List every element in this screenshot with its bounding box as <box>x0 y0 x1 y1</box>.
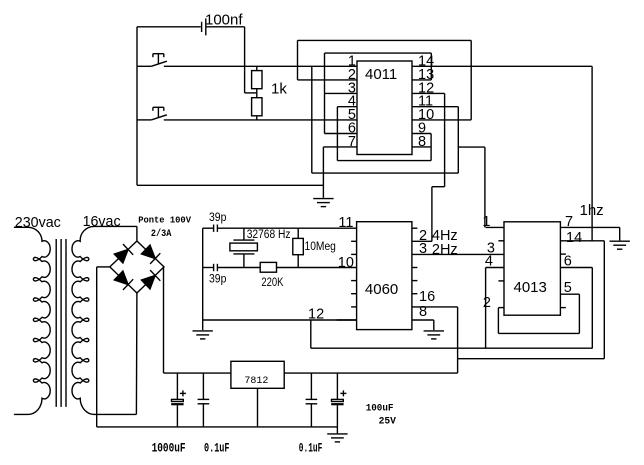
wire 4060 pin8 to ground <box>433 320 435 330</box>
wire rail to C-39p upper <box>203 227 214 229</box>
svg-text:14: 14 <box>566 230 582 246</box>
wire switch S1 to 4011 pin1 <box>164 65 357 67</box>
wire 4011 pin7 to ground <box>322 147 324 198</box>
resistor R1b 1k <box>252 98 262 116</box>
capacitor 39p upper plates <box>213 225 215 232</box>
pin nub left 4060 row5 <box>351 293 357 295</box>
wire vert to 4013 pin1 <box>484 147 486 227</box>
wire bridge minus down to ground rail <box>96 267 98 427</box>
diode D2 bridge top-right <box>141 245 160 264</box>
wire 4011 pin3 stub <box>325 92 358 94</box>
wire 4060 pin2 stub 4Hz <box>412 240 432 242</box>
svg-text:16: 16 <box>419 289 435 305</box>
svg-text:100nf: 100nf <box>205 12 243 29</box>
capacitor 39p lower plates <box>213 264 215 271</box>
svg-text:1000uF: 1000uF <box>152 442 186 456</box>
wire vert to pin2 <box>297 40 299 80</box>
wire 4011 pin9 stub <box>412 133 431 135</box>
svg-text:25V: 25V <box>379 417 396 428</box>
svg-text:4013: 4013 <box>514 279 547 296</box>
wire bottom ground rail <box>97 426 338 428</box>
wire top to capacitor C-100nf <box>137 26 201 28</box>
svg-text:0.1uF: 0.1uF <box>204 442 230 456</box>
wire vert to 4060 pin2 4Hz <box>431 187 433 242</box>
switch S2 pushbutton <box>137 119 151 121</box>
wire mid node to R1b <box>256 93 258 98</box>
wire 7812 input rail <box>164 372 231 374</box>
wire VDD vert pin16 to rail <box>457 307 459 373</box>
bridge rectifier diamond <box>110 241 164 293</box>
wire top loop pin2-pin10 <box>298 39 472 41</box>
wire crystal bottom stem <box>243 254 245 268</box>
wire bridge minus corner <box>97 266 110 268</box>
diode D4 bridge bottom-right <box>141 270 160 289</box>
pin nub right 4060 row5 <box>412 293 418 295</box>
svg-text:7: 7 <box>565 214 573 230</box>
svg-text:11: 11 <box>338 215 353 231</box>
wire 4011 pin14 VDD to right <box>412 65 592 67</box>
ground below crystal rail <box>193 331 213 339</box>
svg-text:4: 4 <box>485 254 493 270</box>
wire 4060 pin12 stub <box>337 319 357 321</box>
capacitor C 100uF electrolytic <box>336 373 338 399</box>
wire 4060 pin12 to rail <box>203 319 357 321</box>
pin nub left 4013 row4 <box>498 280 504 282</box>
wire 4011 pin2 stub <box>298 79 358 81</box>
diode D1 bridge top-left <box>114 244 133 263</box>
wire 4011 pin8 stub <box>412 146 431 148</box>
diode D3 bridge bottom-left <box>114 271 133 290</box>
wire 4060 pin16 stub <box>412 306 458 308</box>
wire rail to C-39p lower <box>203 267 214 269</box>
svg-text:5: 5 <box>564 280 572 296</box>
wire vert from pin1 row <box>311 66 313 173</box>
svg-text:8: 8 <box>419 304 427 320</box>
pin nub right 4060 row4 <box>412 280 418 282</box>
transformer T1 secondary winding <box>72 226 137 414</box>
wire 4013 pin2 to pin5 <box>498 332 579 334</box>
ground right of 4013 <box>610 241 630 249</box>
pin nub right 4013 row6 <box>560 307 566 309</box>
svg-text:10Meg: 10Meg <box>305 239 336 253</box>
wire vert from pin12 <box>444 93 446 186</box>
transformer T1 primary winding <box>14 227 50 414</box>
svg-text:4060: 4060 <box>365 281 398 298</box>
pin nub right 4013 row2 <box>560 253 566 255</box>
svg-text:1: 1 <box>482 214 490 230</box>
op-amp U3 4013 body <box>504 222 560 315</box>
svg-text:220K: 220K <box>261 277 283 289</box>
wire 4011 pin11 stub <box>412 106 458 108</box>
wire vert to pin10 <box>470 40 472 120</box>
wire pin1 row to pin11 vert <box>312 172 459 174</box>
ground below 4060 pin8 <box>424 331 444 339</box>
svg-text:4011: 4011 <box>365 66 397 83</box>
wire 4013 pin4 to reset bus <box>485 268 487 349</box>
svg-text:39p: 39p <box>209 274 226 286</box>
crystal X1 32768Hz <box>233 239 254 241</box>
wire 4013 pin2 stub <box>498 307 504 309</box>
wire switch S2 to 4011 pin5 <box>164 119 357 121</box>
svg-text:10: 10 <box>338 255 354 271</box>
svg-text:39p: 39p <box>209 212 226 224</box>
svg-text:2Hz: 2Hz <box>432 242 458 258</box>
pin nub left 4060 row6 <box>351 306 357 308</box>
wire jog 4Hz <box>432 186 445 188</box>
wire 39p to 4060 pin11 <box>218 227 357 229</box>
wire left rail of button loop <box>136 27 138 186</box>
svg-text:0.1uF: 0.1uF <box>299 442 323 456</box>
wire 220K to 4060 pin10 <box>277 267 357 269</box>
wire to bottom ground <box>336 427 338 434</box>
wire vert to pin13 <box>430 53 432 80</box>
wire 4013 pin14 stub <box>560 240 604 242</box>
wire pin4 to pin8/9 <box>337 160 431 162</box>
wire vert from pin4 <box>336 107 338 161</box>
wire VDD bus <box>458 358 605 360</box>
wire secondary bottom to bridge bottom corner <box>135 293 138 414</box>
wire vertical cap to resistor junction <box>244 27 246 93</box>
svg-text:100uF: 100uF <box>366 402 394 414</box>
pin nub left 4060 row4 <box>351 280 357 282</box>
wire 2Hz 4060 pin3 to 4013 pin3 <box>412 253 504 255</box>
svg-text:6: 6 <box>564 254 572 270</box>
wire reset branch down <box>310 320 312 348</box>
pin nub right 4060 row0 <box>412 227 418 229</box>
wire to resistor R1a <box>256 66 258 70</box>
wire 4013 pin2 down <box>497 308 499 334</box>
wire 7812 ground pin <box>257 388 259 427</box>
transformer T1 core <box>55 239 57 407</box>
svg-text:8: 8 <box>418 134 426 150</box>
wire R1a to mid node <box>256 89 258 93</box>
wire 10Meg bottom stem <box>297 255 299 268</box>
wire reset/ground bus <box>311 347 593 349</box>
capacitor C 0.1uF first <box>202 373 204 399</box>
svg-text:2: 2 <box>483 295 491 311</box>
wire 4013 pin6 to reset bus <box>591 268 593 349</box>
capacitor C 1000uF electrolytic <box>176 373 178 399</box>
ground below 4011 <box>313 199 333 207</box>
pin nub left 4060 row1 <box>351 240 357 242</box>
ground bottom rail <box>327 434 347 442</box>
wire 4013 pin5 stub <box>560 293 579 295</box>
svg-text:1hz: 1hz <box>580 202 604 219</box>
svg-text:7812: 7812 <box>244 376 268 387</box>
wire R1b to S2 wire <box>256 116 258 120</box>
wire 4011 pin4 stub <box>337 106 357 108</box>
op-amp U2 4060 body <box>357 222 412 330</box>
wire 4013 pin5 down <box>578 294 580 333</box>
wire 4011 pin13 stub <box>412 79 431 81</box>
svg-text:32768 Hz: 32768 Hz <box>247 229 291 241</box>
capacitor 100nf plates <box>201 22 203 32</box>
svg-text:3: 3 <box>419 241 427 257</box>
wire 4011 pin12 stub <box>412 92 445 94</box>
wire 4011 pin7 stub <box>323 146 357 148</box>
pin nub left 4060 row2 <box>351 253 357 255</box>
wire vert from pin11 <box>457 107 459 173</box>
pin nub left 4013 row1 <box>498 240 504 242</box>
wire 4013 pin4 stub <box>486 267 504 269</box>
wire VDD vert to 4013 pin14 <box>591 66 593 241</box>
svg-text:230vac: 230vac <box>15 214 61 231</box>
wire mid jog <box>245 92 257 94</box>
wire VDD vert pin14 down <box>603 241 605 359</box>
resistor R1a 1k <box>252 71 262 89</box>
wire 4011 pin10 stub <box>412 119 471 121</box>
wire secondary top to bridge <box>136 226 138 240</box>
wire 4013 pin1 stub <box>486 226 504 228</box>
wire bridge plus down to 7812 input <box>163 267 165 373</box>
wire left rail to ground <box>202 228 204 330</box>
wire vert pin9-pin8 <box>430 134 432 161</box>
regulator U4 7812 body <box>231 361 284 388</box>
svg-text:2/3A: 2/3A <box>151 228 172 240</box>
wire crystal top stem <box>243 228 245 240</box>
wire branch to 4013 pin1 <box>458 146 485 148</box>
wire 4060 pin8 stub <box>412 319 434 321</box>
wire 4013 pin6 stub <box>560 267 592 269</box>
resistor R 10Meg <box>293 238 304 254</box>
svg-text:Ponte 100V: Ponte 100V <box>138 215 192 225</box>
wire 10Meg top stem <box>297 228 299 238</box>
svg-text:1k: 1k <box>271 81 287 98</box>
wire 39p to 220K <box>218 267 261 269</box>
wire 4011 pin6 stub <box>325 133 358 135</box>
wire bottom of button loop to ground stem <box>137 184 323 186</box>
wire 4013 pin7 to ground <box>619 227 621 240</box>
capacitor C 0.1uF second <box>310 373 312 399</box>
wire loop pin6-pin13 <box>325 52 432 54</box>
wire 7812 output +12V rail <box>284 372 457 374</box>
svg-text:7: 7 <box>348 134 356 150</box>
switch S1 pushbutton <box>137 65 151 67</box>
resistor R 220K <box>260 262 276 272</box>
wire vert to pin6 <box>324 53 326 133</box>
op-amp U1 4011 body <box>357 61 412 155</box>
wire 100nf to corner <box>206 26 244 28</box>
pin nub right 4060 row3 <box>412 267 418 269</box>
wire 4013 pin7 stub <box>560 226 619 228</box>
